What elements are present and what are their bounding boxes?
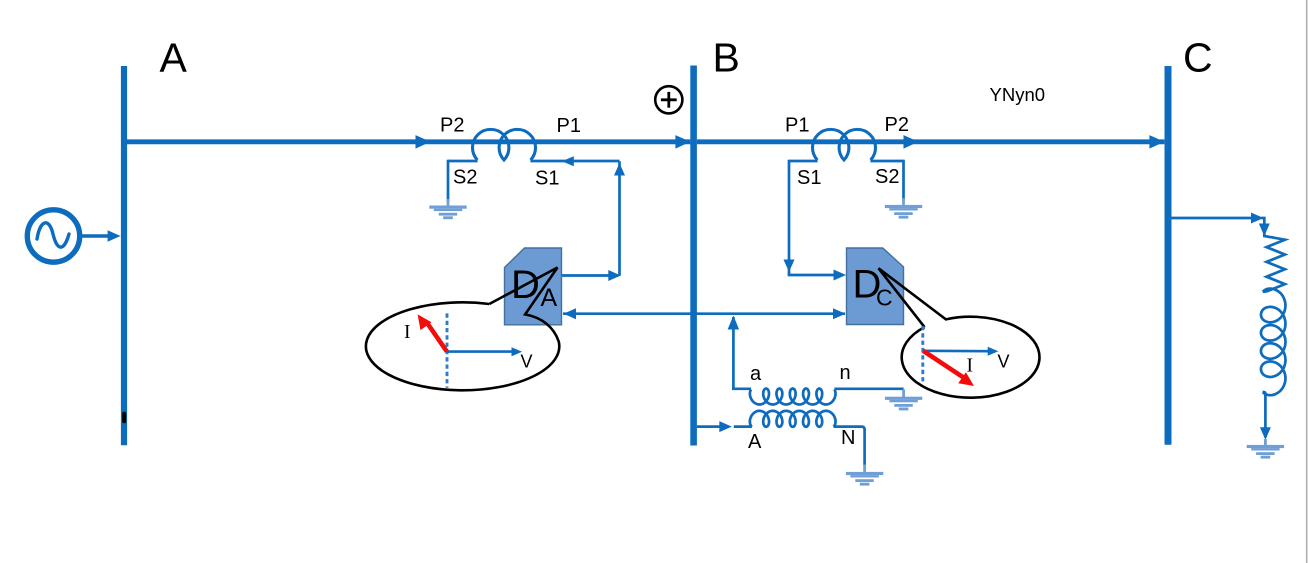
arrowhead down on CT2-DC vertical <box>784 260 795 273</box>
ground at load <box>1264 439 1267 445</box>
wire corner to transformer secondary a <box>733 388 751 389</box>
ground at n <box>902 390 905 398</box>
source G1 circle <box>27 210 79 262</box>
phasor balloon for DC (oval callout) <box>879 268 1040 397</box>
relay DC body <box>847 248 904 325</box>
arrowhead down into resistor <box>1259 224 1270 237</box>
wire corner to relay DC <box>789 272 843 275</box>
svg-text:B: B <box>713 35 740 81</box>
svg-text:n: n <box>840 362 851 384</box>
phasor V arrow in DA balloon <box>447 350 512 353</box>
arrowhead up on CT1-DA vertical <box>614 163 625 176</box>
load resistor R1 (zigzag) <box>1264 226 1285 292</box>
phasor V arrow in DC balloon <box>923 349 988 352</box>
svg-text:YNyn0: YNyn0 <box>990 84 1046 105</box>
arrowhead into relay DC (top wire) <box>834 270 847 281</box>
wire transformer N down to ground <box>834 427 865 466</box>
arrowhead on trunk A-B at bus B <box>675 135 690 149</box>
arrowhead into CT1 S1 <box>562 156 574 166</box>
black tick mark on bus A <box>122 412 126 424</box>
svg-text:S1: S1 <box>535 168 559 190</box>
svg-text:P2: P2 <box>885 114 909 136</box>
bus C <box>1165 66 1172 445</box>
polarity mark circled plus <box>655 86 682 113</box>
phasor I arrow in DA balloon <box>427 323 447 352</box>
transformer T1 secondary winding a-n <box>750 389 836 405</box>
slide right border <box>1306 0 1308 563</box>
ground at N <box>863 465 866 473</box>
svg-text:C: C <box>1183 34 1213 80</box>
svg-text:A: A <box>748 431 762 453</box>
wire trunk bus A to bus B <box>127 139 690 144</box>
dashed reference line in DC balloon <box>921 326 924 382</box>
load inductor L1 (coil) <box>1261 289 1286 396</box>
svg-text:I: I <box>404 322 411 343</box>
arrowhead into relay DC (link) <box>833 308 846 319</box>
CT2 S2 stub wire <box>870 160 903 163</box>
arrowhead into relay DA (link) <box>564 308 577 319</box>
wire CT1 S1 to relay DA (vertical) <box>618 161 621 275</box>
relay DA body <box>505 248 562 325</box>
phasor I arrow in DC balloon <box>923 351 966 380</box>
transformer T1 primary winding A-N <box>750 411 836 427</box>
wire relay DA to relay DC across bus B <box>563 312 845 315</box>
svg-text:C: C <box>876 285 893 311</box>
CT1 S1 stub wire <box>530 160 619 163</box>
wire bus B to transformer primary A <box>697 425 727 428</box>
wire transformer n to ground <box>834 387 903 390</box>
arrowhead on trunk B-C at bus C <box>1149 135 1164 149</box>
dashed reference line in DA balloon <box>446 313 449 387</box>
arrowhead right at corner <box>608 270 621 281</box>
CT1 primary loops <box>473 129 536 160</box>
svg-text:P1: P1 <box>785 115 809 137</box>
arrowhead on trunk A-B (mid) <box>416 135 431 149</box>
svg-text:P1: P1 <box>557 115 581 137</box>
bus A <box>121 66 127 445</box>
CT2 primary loops <box>812 129 875 160</box>
svg-text:A: A <box>160 35 188 81</box>
wire bus C to load <box>1172 217 1254 220</box>
ground CT1 S2 <box>447 199 450 206</box>
wire source to bus A <box>81 234 110 237</box>
svg-text:P2: P2 <box>440 115 464 137</box>
wire resistor to inductor <box>1263 290 1267 293</box>
source G1 sine wave <box>37 223 69 247</box>
phasor balloon for DA (oval callout) <box>366 268 559 391</box>
svg-text:N: N <box>841 427 855 449</box>
svg-text:a: a <box>750 363 762 385</box>
wire trunk bus B to bus C <box>697 139 1165 144</box>
wire CT2 S1 down to relay DC <box>788 160 791 274</box>
svg-text:I: I <box>967 356 974 377</box>
ground CT2 S2 <box>902 198 905 205</box>
svg-text:V: V <box>521 352 533 372</box>
svg-text:S1: S1 <box>797 167 821 189</box>
svg-text:S2: S2 <box>875 166 899 188</box>
CT1 S2 stub wire <box>448 160 478 163</box>
bus B <box>690 66 697 446</box>
svg-text:V: V <box>998 352 1010 372</box>
arrowhead on trunk B-C (after CT2) <box>904 135 919 149</box>
CT2 S1 stub wire <box>789 160 818 163</box>
wire node a up to link (vertical with up arrow) <box>732 317 735 389</box>
wire inductor to ground <box>1263 392 1266 438</box>
wire relay DA to vertical (horizontal) <box>562 274 618 277</box>
wire lead into primary <box>734 425 752 428</box>
svg-text:S2: S2 <box>453 167 477 189</box>
